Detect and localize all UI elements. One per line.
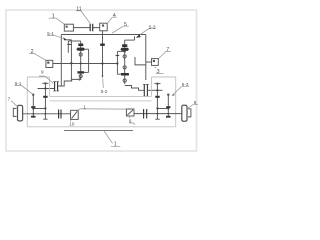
leader 6-1 [14, 86, 32, 95]
riser right [134, 36, 136, 40]
leader 5-3 [140, 29, 156, 35]
shaft V2 [44, 83, 46, 119]
box 10 slash [72, 111, 78, 118]
motor box 3 [152, 59, 159, 66]
frame rect [27, 77, 175, 127]
V2 cap [42, 82, 48, 84]
axle wheel-V1 [23, 113, 71, 115]
leader 3 [155, 67, 164, 74]
leader 9 box [129, 116, 135, 124]
circle B3 [79, 53, 82, 56]
top shaft [73, 27, 99, 29]
shaft V1 right [167, 95, 169, 118]
V2 dot top [44, 87, 46, 89]
V2 bottom bar [43, 118, 47, 120]
leader label mid [78, 109, 126, 110]
coupling caps right [143, 84, 149, 96]
circle lower left [79, 75, 82, 78]
junction dot C [116, 62, 118, 64]
V2 gear [43, 96, 47, 98]
shaft V2 right [156, 84, 158, 120]
junction dot A [70, 62, 72, 64]
V2r bottom bar [155, 118, 159, 120]
dot on gear shaft R [124, 50, 126, 52]
svg-text:11: 11 [76, 6, 82, 12]
svg-text:9: 9 [129, 119, 132, 124]
svg-text:5-3: 5-3 [149, 24, 156, 29]
svg-text:9: 9 [41, 70, 44, 75]
dot stair left [78, 78, 80, 80]
box 9 [126, 109, 134, 116]
V2r cap [155, 83, 161, 85]
leader 4 [107, 17, 117, 23]
V2r cap dot [156, 83, 158, 85]
V1r gear [166, 106, 170, 108]
stub gearB right [85, 48, 89, 50]
motor box 2 [46, 60, 53, 67]
svg-text:5-2: 5-2 [101, 89, 108, 94]
housing left wall [60, 35, 62, 87]
leader 9 left [39, 76, 53, 83]
shaft V1 [32, 95, 34, 118]
motor M2 dot [102, 25, 104, 27]
dot axle V1 [32, 113, 34, 115]
link V2r-V1r [157, 108, 168, 110]
gear shaft B [80, 41, 82, 79]
lower gear shaft stub [81, 71, 89, 73]
motor 2 dot [47, 62, 49, 64]
svg-text:3: 3 [157, 69, 160, 75]
middle shaft [53, 63, 118, 65]
6-1 dot [32, 94, 34, 96]
top bar right [125, 39, 135, 41]
leader 5-2 [102, 78, 105, 87]
svg-text:6-3: 6-3 [182, 82, 189, 87]
leader 1 bottom [104, 131, 121, 147]
coupling caps left [53, 82, 59, 91]
V1 bottom block [31, 116, 36, 118]
svg-text:10: 10 [69, 122, 75, 127]
motor shaft M2 down [102, 31, 104, 77]
V2r dots [156, 89, 158, 91]
clutch tick R [116, 55, 120, 57]
knuckle left [13, 108, 16, 116]
6-3 dot [167, 94, 169, 96]
upper stub right [117, 50, 124, 52]
gear V1 [31, 106, 35, 108]
gear on shaft M2 [100, 44, 105, 46]
shaft H1 right [147, 89, 162, 91]
input shaft A [70, 40, 72, 82]
leader 6-3 [173, 87, 189, 95]
shaft A stub [65, 39, 71, 41]
dot link V1r [167, 107, 169, 109]
frame rail lines [50, 96, 152, 101]
svg-text:5: 5 [124, 22, 127, 28]
inner wall right [135, 57, 146, 65]
svg-text:5-1: 5-1 [47, 31, 54, 36]
circle R4 [123, 66, 126, 69]
arrow 5-3 [136, 34, 141, 37]
right vertical link [116, 51, 118, 74]
motor M1 dot [66, 26, 68, 28]
V2r gear [155, 96, 159, 98]
staircase right [125, 86, 145, 91]
lower gear left [77, 71, 84, 73]
leader 1 top [49, 18, 65, 24]
V2 dots [44, 107, 46, 109]
housing right wall [145, 35, 147, 81]
box 9 slash [127, 110, 133, 115]
svg-text:1: 1 [83, 104, 86, 109]
border frame [6, 10, 197, 151]
link V1-V2 [33, 108, 45, 110]
arrow 6-3 tip [172, 94, 175, 96]
V1r bottom block [166, 116, 171, 118]
leader 5 [112, 26, 129, 33]
gear R2 [120, 48, 129, 51]
arrow 5-2 tip [102, 76, 104, 79]
vertical link left [88, 49, 90, 72]
leader 8 [187, 105, 198, 109]
svg-text:4: 4 [113, 13, 116, 19]
gear shaft R [124, 40, 126, 84]
pinion B1 [78, 44, 83, 47]
motor M1 box [64, 24, 73, 31]
box 10 [71, 110, 79, 119]
top bar left [68, 40, 80, 42]
svg-text:1: 1 [114, 142, 117, 148]
axle box9-V2r [134, 113, 182, 115]
dot axle V1r [167, 113, 169, 115]
junction dot B [101, 62, 103, 64]
gear B2 [76, 48, 85, 51]
svg-text:6-1: 6-1 [15, 81, 22, 86]
coupling right upper [144, 84, 147, 96]
coupling left upper [55, 82, 58, 91]
svg-text:2: 2 [31, 49, 34, 55]
lower dark line [64, 130, 133, 132]
coupling C11 [90, 24, 93, 31]
V2 cap dot [44, 82, 46, 84]
lower gear right [121, 73, 129, 76]
wheel right [182, 105, 187, 121]
svg-text:7: 7 [8, 96, 11, 101]
junction dot B2 [80, 62, 82, 64]
coupling axle right [144, 109, 147, 119]
coupling axle left [59, 110, 61, 119]
staircase left [58, 78, 81, 86]
stub box3 [146, 61, 152, 63]
circle R3 [123, 55, 126, 58]
gearbox housing top [61, 34, 146, 36]
lower stub right [117, 73, 121, 75]
clutch tick A [67, 43, 71, 45]
svg-text:1: 1 [52, 14, 55, 20]
svg-text:7: 7 [166, 47, 169, 53]
shaft H1 [38, 88, 55, 90]
wheel left [18, 105, 23, 121]
leader 10 [70, 120, 71, 122]
leader 2 [29, 54, 46, 61]
svg-text:8: 8 [194, 100, 197, 105]
leader 7 left [11, 101, 17, 107]
dot link V1 [32, 107, 34, 109]
leader lines [11, 11, 198, 147]
clutch line A [67, 41, 69, 53]
circle R5 [123, 79, 126, 82]
leader 7 right [159, 51, 171, 58]
motor 3 dot [153, 60, 155, 62]
motor M2 box [100, 23, 108, 31]
leader 11 [76, 11, 90, 24]
knuckle right [188, 109, 191, 117]
leader 5-1 [47, 35, 64, 38]
pinion R1 [122, 44, 127, 47]
arrow 5-1 [63, 37, 67, 40]
